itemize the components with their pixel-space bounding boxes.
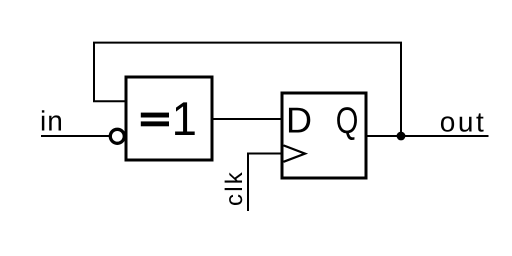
svg-text:in: in	[40, 106, 64, 137]
svg-text:clk: clk	[221, 170, 248, 206]
svg-text:Q: Q	[336, 100, 359, 141]
svg-text:D: D	[286, 100, 312, 141]
svg-text:1: 1	[172, 93, 197, 146]
svg-text:out: out	[440, 107, 487, 138]
